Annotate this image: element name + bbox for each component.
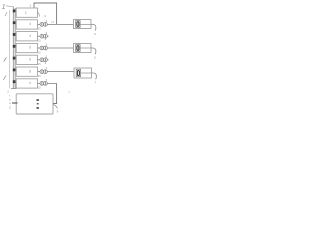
svg-text:3: 3 [94, 32, 96, 36]
svg-text:6: 6 [29, 58, 31, 62]
svg-text:4: 4 [29, 34, 31, 38]
svg-text:8: 8 [29, 69, 31, 73]
svg-text:6: 6 [29, 46, 31, 50]
svg-text:2: 2 [25, 11, 27, 15]
svg-text:n: n [29, 81, 31, 85]
svg-text:5: 5 [94, 56, 96, 60]
svg-text:7: 7 [95, 81, 97, 85]
svg-text:1: 1 [2, 4, 6, 11]
svg-text:4: 4 [29, 22, 31, 26]
